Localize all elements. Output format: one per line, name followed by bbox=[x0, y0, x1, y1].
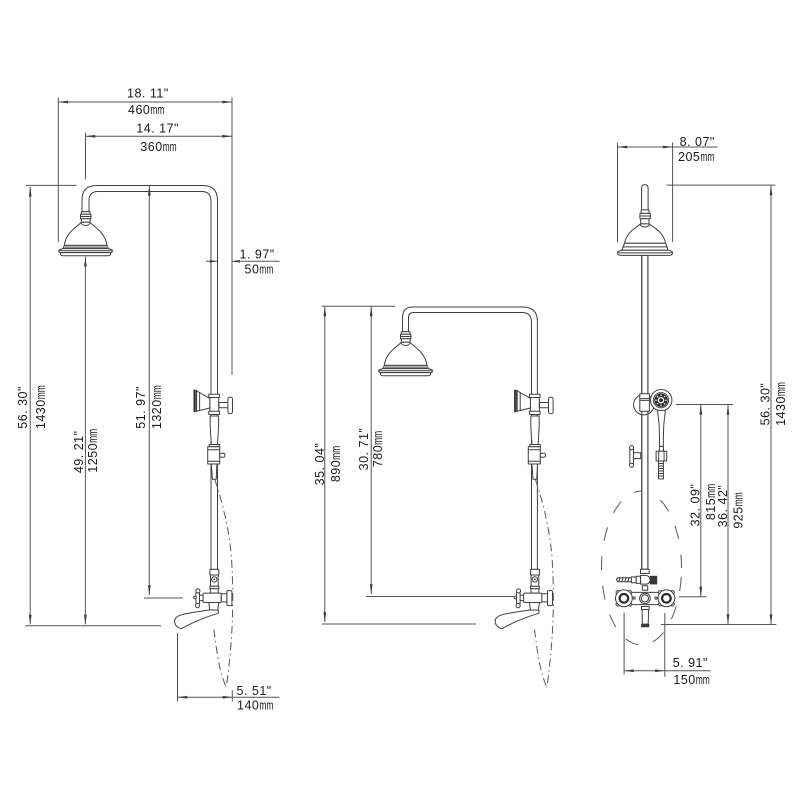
svg-text:56. 30": 56. 30" bbox=[16, 386, 30, 429]
svg-text:890mm: 890mm bbox=[329, 446, 343, 482]
svg-text:49. 21": 49. 21" bbox=[72, 430, 86, 473]
svg-text:780mm: 780mm bbox=[371, 431, 385, 467]
svg-text:150mm: 150mm bbox=[673, 673, 709, 687]
svg-text:51. 97": 51. 97" bbox=[134, 386, 148, 429]
svg-text:35. 04": 35. 04" bbox=[313, 443, 327, 486]
svg-text:50mm: 50mm bbox=[245, 262, 274, 276]
svg-text:1250mm: 1250mm bbox=[86, 429, 100, 473]
svg-text:1430mm: 1430mm bbox=[34, 385, 48, 429]
svg-text:18. 11": 18. 11" bbox=[127, 87, 169, 101]
svg-text:30. 71": 30. 71" bbox=[357, 428, 371, 471]
svg-text:36. 42": 36. 42" bbox=[716, 485, 730, 528]
svg-text:5. 91": 5. 91" bbox=[673, 656, 708, 670]
svg-text:8. 07": 8. 07" bbox=[680, 135, 715, 149]
svg-text:360mm: 360mm bbox=[140, 140, 176, 154]
svg-text:1. 97": 1. 97" bbox=[240, 247, 275, 261]
svg-text:14. 17": 14. 17" bbox=[136, 122, 179, 136]
svg-text:140mm: 140mm bbox=[237, 699, 273, 713]
svg-text:205mm: 205mm bbox=[678, 150, 714, 164]
svg-text:460mm: 460mm bbox=[128, 103, 164, 117]
svg-text:32. 09": 32. 09" bbox=[689, 484, 703, 527]
svg-text:925mm: 925mm bbox=[732, 492, 746, 528]
svg-text:5. 51": 5. 51" bbox=[237, 684, 272, 698]
svg-text:56. 30": 56. 30" bbox=[759, 383, 773, 426]
svg-text:1320mm: 1320mm bbox=[150, 385, 164, 429]
svg-text:1430mm: 1430mm bbox=[774, 382, 788, 426]
